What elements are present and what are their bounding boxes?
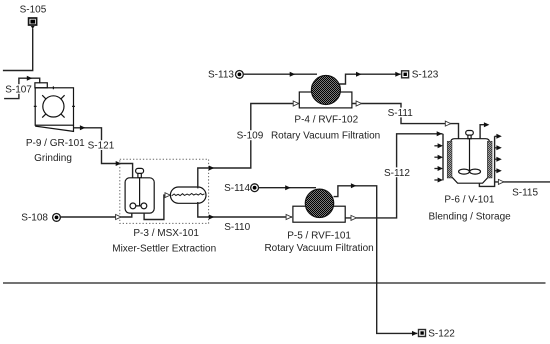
arrowhead S-111 at vessel (open) <box>445 121 450 126</box>
vessel right outlet arrows <box>496 134 501 173</box>
wire settler top outlet S-109 <box>198 104 299 189</box>
divider line <box>3 282 546 284</box>
vessel P-6 / V-101 body <box>451 139 490 184</box>
unit P-5 / RVF-101 filter circle <box>305 189 333 217</box>
arrowhead S-114 <box>285 185 291 190</box>
grinder P-9 / GR-101 body <box>34 86 75 131</box>
arrowhead S-123 at port <box>395 72 401 77</box>
node S-114 input icon <box>251 184 259 192</box>
svg-text:S-108: S-108 <box>21 212 48 223</box>
arrowhead S-123 mid <box>356 72 362 77</box>
wire S-112 <box>345 134 442 218</box>
svg-text:Blending / Storage: Blending / Storage <box>428 212 511 223</box>
arrowhead S-111 start (open) <box>356 101 361 106</box>
svg-text:P-3 / MSX-101: P-3 / MSX-101 <box>133 228 199 239</box>
svg-text:S-110: S-110 <box>224 222 250 233</box>
svg-text:P-4 / RVF-102: P-4 / RVF-102 <box>294 115 358 126</box>
wire mixer to settler <box>144 195 169 219</box>
node S-113 input icon <box>236 71 244 79</box>
wire S-105 <box>3 29 33 71</box>
svg-text:S-121: S-121 <box>88 141 115 152</box>
wire S-115 <box>495 181 550 183</box>
node S-123 output port icon <box>402 71 409 78</box>
wire S-108 <box>61 216 120 218</box>
arrowhead S-108 (open) <box>116 215 121 220</box>
svg-text:Rotary Vacuum Filtration: Rotary Vacuum Filtration <box>264 243 373 254</box>
unit P-4 / RVF-102 filter circle <box>311 76 340 105</box>
mixer vessel of MSX-101 <box>125 168 154 213</box>
wire S-123 <box>339 74 400 84</box>
node S-112 label <box>383 167 412 179</box>
svg-text:S-123: S-123 <box>412 69 439 80</box>
wire settler bottom outlet S-110 <box>198 202 292 217</box>
wire S-107 <box>4 78 40 98</box>
wire S-122 <box>334 186 418 334</box>
svg-text:Rotary Vacuum Filtration: Rotary Vacuum Filtration <box>271 131 380 142</box>
svg-text:Mixer-Settler Extraction: Mixer-Settler Extraction <box>112 244 216 255</box>
node S-111 label <box>386 108 415 119</box>
arrowhead S-121 mid <box>80 125 86 130</box>
arrowhead S-121 at box <box>116 161 122 166</box>
arrowhead S-110 into RVF-101 (open) <box>286 215 291 220</box>
svg-text:P-6 / V-101: P-6 / V-101 <box>444 195 494 206</box>
arrowhead S-112 at manifold <box>437 131 443 136</box>
svg-text:P-5 / RVF-101: P-5 / RVF-101 <box>287 231 351 242</box>
svg-text:S-109: S-109 <box>237 131 264 142</box>
vessel vent wire <box>480 125 486 139</box>
arrowhead S-113 <box>290 72 296 77</box>
arrowhead S-112 start (open) <box>351 215 356 220</box>
arrowhead S-107 <box>27 76 33 81</box>
arrowhead S-115 (open) <box>498 179 503 184</box>
svg-text:Grinding: Grinding <box>34 153 72 164</box>
wire S-111 <box>352 104 459 139</box>
node S-121 label <box>86 140 115 151</box>
unit P-5 / RVF-101 drum rect <box>293 206 345 222</box>
node S-107 label <box>4 84 34 95</box>
node S-108 input icon <box>53 214 61 222</box>
wire S-121 <box>74 128 133 178</box>
arrowhead S-109 at box exit <box>209 166 215 171</box>
svg-text:S-113: S-113 <box>208 69 234 80</box>
vessel right manifold <box>479 136 494 186</box>
arrowhead S-110 at box exit <box>209 215 215 220</box>
settler interface wavy line <box>172 194 205 196</box>
unit P-3 / MSX-101 dashed box <box>120 159 209 223</box>
vessel left inlet arrows <box>438 143 443 182</box>
vessel motor <box>459 131 481 175</box>
svg-text:S-105: S-105 <box>20 5 47 16</box>
svg-text:S-112: S-112 <box>384 168 410 179</box>
wire S-113 <box>244 73 318 75</box>
wire S-114 <box>259 187 316 189</box>
vessel vent arrowhead <box>484 122 490 127</box>
arrowhead S-122 top <box>351 183 357 188</box>
svg-text:S-111: S-111 <box>388 108 414 119</box>
arrowhead S-109 into RVF-102 (open) <box>293 101 298 106</box>
arrowhead S-122 at port <box>412 331 418 336</box>
svg-text:S-107: S-107 <box>5 84 32 95</box>
node S-105 input port icon <box>29 18 37 29</box>
vessel jacket left strip <box>447 141 452 178</box>
wire S-108 inside box <box>120 213 132 217</box>
svg-text:P-9 / GR-101: P-9 / GR-101 <box>26 138 85 149</box>
vessel jacket right strip <box>487 141 492 178</box>
svg-text:S-114: S-114 <box>224 183 250 194</box>
node S-122 output port icon <box>419 330 426 337</box>
grinder P-9 / GR-101 chute <box>35 83 47 88</box>
arrowhead into settler (open) <box>165 193 170 198</box>
svg-text:S-122: S-122 <box>428 329 455 340</box>
node S-109 label <box>235 130 267 141</box>
unit P-4 / RVF-102 drum rect <box>299 92 352 108</box>
svg-text:S-115: S-115 <box>512 188 538 199</box>
vessel P-6 / V-101 left manifold <box>442 134 444 181</box>
settler capsule of MSX-101 <box>170 187 206 203</box>
